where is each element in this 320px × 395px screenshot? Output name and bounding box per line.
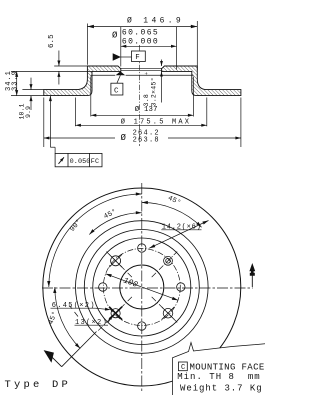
locating hole 45deg (double circle) (164, 256, 173, 265)
section cut line (62, 332, 97, 367)
svg-text:60.000: 60.000 (122, 37, 159, 46)
svg-text:MOUNTING FACE: MOUNTING FACE (190, 362, 265, 372)
angular dim arc 45deg right (142, 201, 202, 227)
dim chamfer arrows (160, 60, 163, 103)
dim Ø100 bolt circle line (106, 274, 178, 300)
dim Ø60 text (112, 28, 159, 46)
dim 10.1 reference line (22, 89, 43, 91)
dim Ø146.9 line (87, 25, 197, 28)
dim Ø60 line (121, 45, 177, 48)
disc cross-section right half (hatched) (162, 66, 241, 96)
dim 6.5 arrows (57, 51, 60, 85)
dim Ø146.9 extension lines (87, 21, 197, 70)
svg-text:6.5: 6.5 (48, 34, 56, 48)
runout FCF arrow symbol (59, 157, 65, 164)
note box (break-line border) (173, 343, 266, 395)
note Min TH text (177, 372, 260, 382)
svg-text:C: C (114, 87, 119, 95)
bolt hole right (177, 283, 185, 291)
dim 34.1 reference line (11, 95, 44, 97)
diagonal centerline 315deg (152, 297, 178, 323)
runout FCF value text (70, 158, 100, 166)
hole 315deg with X mark (162, 307, 174, 319)
svg-text:Ø: Ø (112, 31, 118, 41)
svg-text:33.9: 33.9 (12, 70, 20, 91)
dim Ø146.9 text (127, 16, 184, 25)
datum F symbol (113, 51, 146, 62)
front view circle Ø146.9 (84, 230, 199, 345)
bore chamfer silhouette lines (121, 68, 162, 70)
diagonal centerline 135deg (106, 252, 131, 278)
hole 135deg with X mark (109, 254, 122, 267)
Type DP label (5, 379, 72, 391)
svg-text:C: C (181, 364, 185, 372)
note datum C box (179, 362, 188, 372)
hatch pattern def (0, 0, 1, 1)
svg-text:F: F (135, 54, 140, 62)
front view circle Ø175.5 (76, 221, 209, 354)
svg-text:Weight 3.7 Kg: Weight 3.7 Kg (180, 384, 263, 394)
svg-text:Ø 137: Ø 137 (135, 105, 158, 114)
svg-text:263.8: 263.8 (133, 137, 160, 145)
label 6.45(x2) (51, 302, 96, 310)
bolt hole top (138, 244, 146, 252)
dim 10.1 arrows (30, 78, 33, 110)
dim chamfer text (143, 72, 158, 107)
hole 225deg with thick X mark (109, 307, 122, 320)
angular dim label 90deg (68, 217, 84, 233)
angular dim label 45deg left (102, 207, 118, 221)
datum C symbol (111, 71, 125, 95)
note MOUNTING FACE text (190, 362, 265, 372)
leader line 14.2 (149, 221, 208, 249)
dim Ø137 extension lines (91, 77, 194, 117)
dim 6.5 extension lines (11, 66, 92, 71)
dim 10.1/9.9 text (19, 103, 33, 119)
svg-text:FC: FC (91, 158, 99, 166)
svg-text:9.9: 9.9 (25, 106, 32, 118)
svg-text:Ø 146.9: Ø 146.9 (127, 16, 184, 25)
front view outer circle Ø264 (43, 188, 241, 386)
dim Ø264 line (44, 137, 241, 140)
vertical centerline (141, 183, 143, 392)
dim 34.1 line (15, 71, 18, 95)
front view center bore circle (120, 265, 164, 309)
dim Ø175.5 text (121, 118, 191, 127)
front view circle hat inner (93, 238, 191, 336)
svg-text:0.050: 0.050 (70, 158, 91, 166)
diagonal centerline 45deg (152, 252, 178, 278)
dim Ø175.5 line (75, 124, 206, 127)
label 14.2(x6) (161, 223, 201, 231)
section arrow lower-left (44, 350, 62, 367)
angular dim label 45deg right (166, 194, 182, 208)
runout FCF leader (49, 96, 55, 154)
leader line 6.45 (96, 308, 111, 311)
mounting recess edge line (91, 74, 194, 76)
svg-text:60.065: 60.065 (122, 28, 159, 37)
dim Ø60 extension lines (121, 27, 177, 70)
leader dashes (70, 306, 79, 317)
label 13(x2) (75, 319, 109, 327)
dim Ø264 text (121, 129, 160, 144)
svg-text:6.45(×2): 6.45(×2) (52, 302, 96, 310)
svg-text:3.2×45°: 3.2×45° (150, 77, 158, 106)
angular dim arc 90deg (47, 192, 142, 287)
svg-text:Ø 175.5 MAX: Ø 175.5 MAX (121, 118, 191, 127)
svg-text:Min. TH 8 mm: Min. TH 8 mm (177, 372, 260, 382)
svg-text:14.2(×6): 14.2(×6) (162, 223, 202, 231)
dim 34.1/33.9 text (5, 70, 20, 91)
dim Ø137 line (91, 114, 194, 117)
dim Ø264 extension lines (44, 98, 241, 148)
section centerline (139, 45, 141, 146)
svg-text:+: + (144, 72, 150, 75)
disc cross-section left half (hatched) (44, 66, 121, 96)
angular dim arc 45deg left (89, 211, 142, 234)
bolt hole left (99, 283, 107, 291)
svg-text:Ø: Ø (121, 133, 127, 143)
angular dim label 45deg lower-left (46, 310, 59, 326)
bolt hole bottom (138, 322, 146, 330)
horizontal centerline (42, 287, 253, 289)
runout FCF box (55, 153, 102, 166)
svg-text:3.8: 3.8 (143, 94, 150, 107)
svg-text:Type DP: Type DP (5, 379, 72, 391)
section arrow right (249, 263, 255, 287)
svg-text:13(×2): 13(×2) (75, 319, 108, 327)
leader line 13 (108, 315, 113, 323)
angular dim arc 45deg lower-left (53, 287, 80, 349)
bolt circle Ø100 (dash-dot) (103, 249, 180, 326)
dim Ø175.5 extension lines (75, 98, 206, 127)
dim 6.5 text (48, 34, 56, 48)
diagonal centerline 225deg (98, 297, 132, 331)
dim Ø137 text (135, 105, 158, 114)
note Weight text (180, 384, 263, 394)
dim 100 text (122, 276, 139, 290)
